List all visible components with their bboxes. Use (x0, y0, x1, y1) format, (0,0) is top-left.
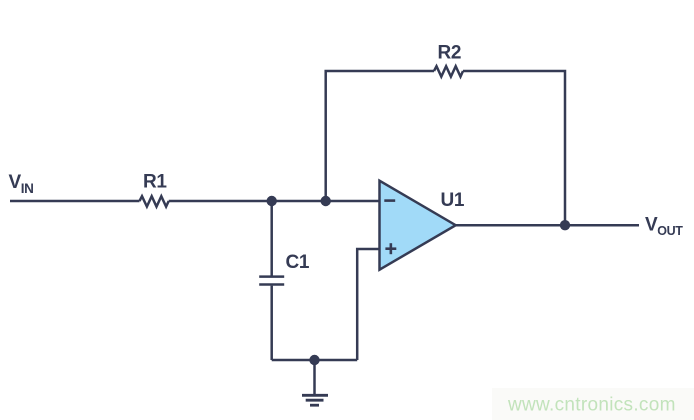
ground bar 3 (310, 404, 319, 407)
wire: non-inverting input branch (357, 249, 379, 360)
capacitor C1 top plate (259, 275, 284, 278)
wire: C1 branch vertical (270, 201, 273, 276)
wire: op-amp output to VOUT (456, 224, 639, 227)
wire: C1 to bottom rail (270, 286, 273, 360)
node: feedback branch junction (321, 196, 331, 206)
node: output junction (560, 220, 570, 230)
node: ground junction (309, 355, 319, 365)
svg-text:VOUT: VOUT (645, 214, 683, 238)
op-amp minus sign (384, 199, 395, 202)
wire: feedback right vertical to output (463, 71, 565, 225)
op-amp plus sign (385, 243, 396, 254)
node: C1 branch junction (267, 196, 277, 206)
wire: bottom rail (272, 359, 358, 362)
watermark band (492, 388, 694, 420)
svg-text:C1: C1 (286, 252, 310, 273)
op-amp U1 body (380, 181, 456, 270)
svg-text:U1: U1 (441, 190, 465, 211)
wire: feedback left vertical (326, 71, 434, 201)
resistor R1 (140, 196, 169, 206)
capacitor C1 bottom plate (259, 283, 284, 286)
ground stub (313, 360, 316, 394)
wire: R1 to op-amp inverting input (169, 200, 380, 203)
svg-text:R2: R2 (438, 42, 462, 63)
svg-text:www.cntronics.com: www.cntronics.com (507, 395, 676, 416)
svg-text:VIN: VIN (9, 172, 34, 196)
resistor R2 (434, 66, 463, 76)
wire: input from VIN to R1 (10, 200, 140, 203)
ground bar 1 (302, 394, 328, 397)
ground bar 2 (306, 399, 324, 402)
svg-text:R1: R1 (143, 172, 167, 193)
